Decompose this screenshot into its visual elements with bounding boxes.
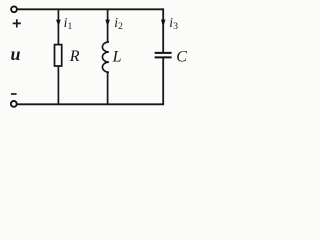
terminal bottom-left: [11, 101, 17, 107]
wire right rail upper (to capacitor): [162, 8, 164, 52]
svg-text:2: 2: [118, 22, 123, 32]
capacitor C bottom plate: [155, 56, 172, 58]
wire branch R upper: [57, 9, 59, 44]
wire right rail lower (from capacitor): [162, 57, 164, 104]
plus sign: [13, 19, 21, 27]
arrowhead i2: [105, 20, 110, 27]
wire top rail: [18, 8, 164, 10]
svg-text:R: R: [69, 48, 80, 65]
svg-text:1: 1: [68, 22, 73, 32]
arrowhead i1: [56, 20, 61, 27]
wire branch L lower: [107, 72, 109, 104]
wire branch L upper: [107, 9, 109, 41]
svg-text:C: C: [176, 48, 187, 65]
svg-text:L: L: [112, 48, 122, 65]
wire bottom rail: [17, 103, 164, 105]
svg-text:3: 3: [173, 22, 178, 32]
inductor L: [102, 42, 108, 73]
capacitor C top plate: [155, 52, 172, 54]
terminal top-left: [11, 6, 17, 12]
minus sign: [11, 93, 17, 95]
resistor R: [55, 45, 62, 66]
wire branch R lower: [57, 66, 59, 104]
svg-text:u: u: [11, 44, 21, 64]
arrowhead i3: [161, 20, 166, 27]
